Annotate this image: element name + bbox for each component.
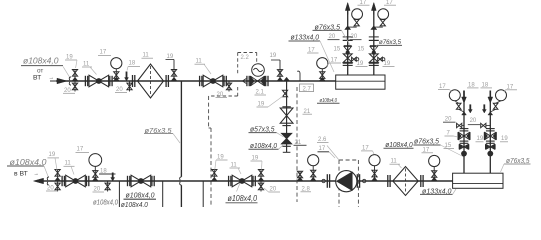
svg-text:19: 19	[49, 152, 56, 158]
svg-text:ø133х4,0: ø133х4,0	[291, 32, 320, 41]
svg-text:20: 20	[445, 116, 452, 122]
svg-text:20: 20	[470, 118, 477, 124]
svg-text:17: 17	[77, 147, 84, 153]
svg-text:2.2: 2.2	[241, 55, 250, 61]
svg-text:19: 19	[270, 53, 277, 59]
svg-text:15: 15	[358, 47, 365, 53]
svg-text:11: 11	[65, 161, 72, 167]
svg-text:ø108х4,0: ø108х4,0	[121, 200, 149, 207]
svg-text:ø108х4,0: ø108х4,0	[250, 141, 278, 150]
svg-text:19: 19	[501, 136, 508, 142]
svg-text:11: 11	[143, 53, 150, 59]
svg-text:ø108х4,0: ø108х4,0	[10, 158, 48, 167]
svg-text:→: →	[34, 171, 39, 177]
svg-text:15: 15	[334, 47, 341, 53]
svg-text:в ВТ: в ВТ	[14, 170, 28, 177]
svg-text:→: →	[49, 75, 55, 81]
svg-text:15: 15	[445, 143, 452, 149]
svg-text:ø57х3,5: ø57х3,5	[250, 124, 275, 133]
svg-text:ø108х4,0: ø108х4,0	[385, 140, 413, 149]
svg-text:11: 11	[196, 58, 203, 64]
svg-text:18: 18	[100, 168, 107, 174]
svg-text:ø108х4,0: ø108х4,0	[126, 190, 156, 199]
svg-text:ø108х4,0: ø108х4,0	[23, 57, 59, 66]
svg-text:ø76х3,5: ø76х3,5	[414, 136, 440, 145]
svg-text:18: 18	[129, 61, 136, 67]
svg-text:19: 19	[477, 136, 484, 142]
svg-text:от: от	[37, 67, 43, 74]
svg-text:ø108х4,0: ø108х4,0	[228, 193, 258, 203]
svg-text:ВТ: ВТ	[33, 75, 41, 82]
svg-text:ø108х4,0: ø108х4,0	[93, 197, 118, 206]
svg-text:19: 19	[167, 54, 174, 60]
svg-text:11: 11	[391, 159, 398, 165]
svg-text:17: 17	[439, 84, 446, 90]
svg-text:17: 17	[100, 50, 107, 56]
svg-text:17: 17	[319, 146, 326, 152]
